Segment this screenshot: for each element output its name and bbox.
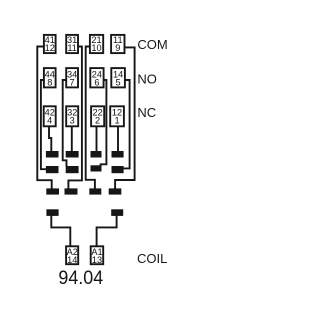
contact bar B4 (NO fixed contact pole4)	[112, 166, 124, 173]
contact bar B3 (NO fixed contact pole3)	[91, 165, 102, 171]
terminal 31/11	[66, 35, 78, 53]
terminal 21/10	[90, 35, 103, 53]
wire COM pole3 (terminal 21/10 to moving contact 3)	[86, 47, 95, 190]
svg-text:NO: NO	[137, 72, 157, 87]
svg-text:3: 3	[70, 115, 75, 125]
wire COM pole4 (terminal 11/9 to moving contact 4)	[115, 47, 135, 189]
contact bar A3 (NC fixed contact pole3)	[91, 151, 102, 158]
svg-text:14: 14	[67, 255, 77, 265]
wire NO pole4 (terminal 14/5 to contact bar B4)	[123, 80, 130, 168]
coil terminal A1/13	[91, 246, 104, 264]
coil pin bar right	[111, 209, 123, 216]
wire NC pole2 (terminal 32/3 down to contact bar A2)	[71, 127, 73, 152]
wire coil A2 (pin bar left to terminal A2/14)	[51, 216, 70, 246]
terminal 11/9	[111, 35, 124, 53]
terminal 24/6	[90, 68, 103, 87]
contact bar C2 (moving contact pole2)	[65, 188, 78, 194]
svg-text:1: 1	[114, 115, 119, 125]
svg-text:5: 5	[116, 77, 121, 87]
svg-text:9: 9	[115, 43, 120, 53]
svg-text:12: 12	[45, 43, 55, 53]
svg-text:10: 10	[91, 43, 101, 53]
coil terminal A2/14	[66, 246, 78, 264]
svg-text:7: 7	[70, 77, 75, 87]
wire coil A1 (pin bar right to terminal A1/13)	[97, 216, 117, 246]
coil pin bar left	[46, 209, 58, 216]
contact bar C1 (moving contact pole1)	[46, 188, 59, 194]
svg-text:6: 6	[94, 77, 99, 87]
svg-text:2: 2	[95, 115, 100, 125]
wire NO pole2 (terminal 34/7 to contact bar B2)	[63, 80, 67, 167]
contact bar A4 (NC fixed contact pole4)	[112, 151, 124, 158]
contact bar A1 (NC fixed contact pole1)	[46, 151, 59, 158]
contact bar C3 (moving contact pole3)	[89, 188, 101, 194]
terminal 14/5	[111, 68, 125, 87]
contact bar B1 (NO fixed contact pole1)	[46, 166, 59, 173]
wire NC pole1 (terminal 42/4 down to contact bar A1)	[49, 127, 51, 152]
wire NC pole3 (terminal 22/2 down to contact bar A3)	[96, 127, 98, 152]
svg-text:4: 4	[47, 115, 52, 125]
svg-text:94.04: 94.04	[58, 267, 103, 289]
wire COM pole2 (terminal 31/11 to moving contact 2)	[68, 47, 82, 190]
terminal 32/3	[66, 106, 78, 126]
contact bar B2 (NO fixed contact pole2)	[66, 166, 79, 173]
svg-text:11: 11	[67, 43, 77, 53]
wire NO pole3 (terminal 24/6 to contact bar B3)	[101, 80, 107, 167]
svg-text:NC: NC	[137, 105, 156, 120]
contact bar A2 (NC fixed contact pole2)	[66, 151, 79, 158]
svg-text:8: 8	[47, 77, 52, 87]
svg-text:COM: COM	[137, 37, 167, 52]
wire NC pole4 (terminal 12/1 down to contact bar A4)	[117, 127, 119, 152]
wire COM pole1 (terminal 41/12 to moving contact 1)	[37, 47, 51, 190]
wire NO pole1 (terminal 44/8 to contact bar B1)	[41, 80, 47, 169]
contact bar C4 (moving contact pole4)	[109, 188, 122, 194]
terminal 22/2	[91, 106, 104, 126]
terminal 42/4	[44, 106, 56, 126]
terminal 12/1	[110, 106, 124, 126]
terminal 34/7	[66, 68, 78, 87]
svg-text:13: 13	[92, 255, 102, 265]
terminal 41/12	[44, 35, 56, 53]
terminal 44/8	[44, 68, 56, 87]
svg-text:COIL: COIL	[137, 251, 167, 266]
